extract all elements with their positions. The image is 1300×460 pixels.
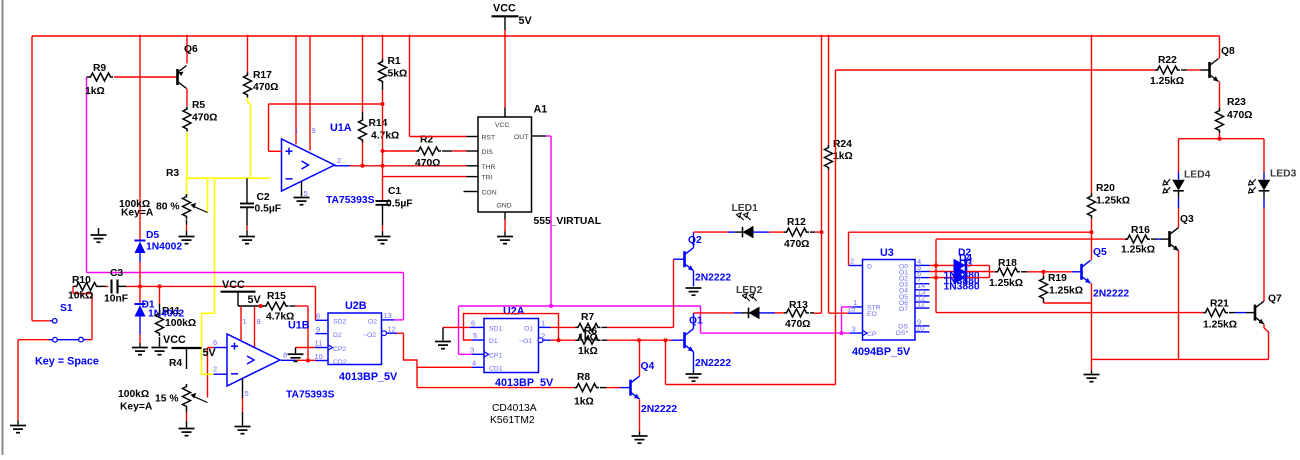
resistor R24 — [825, 145, 833, 170]
svg-text:1: 1 — [295, 126, 299, 135]
wire diode commons — [967, 264, 990, 266]
potentiometer R3 — [186, 178, 188, 194]
wire R7 to Q2 riser — [607, 326, 674, 328]
diode D3 — [954, 265, 967, 279]
resistor R12 — [784, 228, 809, 236]
svg-text:6: 6 — [213, 338, 217, 347]
wire U1B output — [281, 359, 296, 361]
capacitor C3 — [106, 285, 109, 287]
resistor R5 — [183, 107, 191, 132]
svg-text:OS*: OS* — [896, 330, 909, 337]
wire LED2 to R13 — [775, 312, 784, 314]
diode D1 — [139, 286, 141, 304]
resistor R6 — [576, 336, 601, 344]
svg-text:R20: R20 — [1096, 183, 1115, 194]
svg-text:10: 10 — [315, 352, 323, 361]
svg-text:Q1: Q1 — [689, 316, 703, 327]
svg-text:100kΩ: 100kΩ — [118, 389, 149, 400]
wire C1 top — [382, 177, 384, 201]
svg-text:R16: R16 — [1131, 225, 1150, 236]
wire R19 bottom to emitter — [1044, 302, 1092, 304]
svg-text:R9: R9 — [93, 63, 106, 74]
svg-text:LED3: LED3 — [1270, 169, 1297, 180]
svg-text:4013BP_5V: 4013BP_5V — [339, 371, 398, 383]
wire LED3 top — [1263, 139, 1265, 173]
wire notO2 riser to R8 — [416, 367, 418, 387]
wire U1B pin5 ground — [242, 379, 244, 399]
svg-text:D2: D2 — [333, 332, 342, 339]
svg-text:Q7: Q7 — [1268, 294, 1282, 305]
wire Q3 emitter to bus — [1178, 251, 1180, 360]
svg-text:9: 9 — [316, 325, 320, 334]
svg-text:~O1: ~O1 — [519, 338, 532, 345]
transistor Q1 — [672, 329, 694, 352]
svg-text:4: 4 — [472, 359, 476, 368]
svg-text:Q3: Q3 — [1180, 214, 1194, 225]
ground U1B — [235, 427, 251, 434]
svg-text:VCC: VCC — [163, 334, 186, 346]
svg-text:1.25kΩ: 1.25kΩ — [1096, 196, 1130, 207]
wire Q4 emitter ground — [639, 399, 641, 431]
wire U1A power pins — [295, 36, 297, 145]
ground U1A — [294, 198, 310, 205]
svg-text:CD4013A: CD4013A — [492, 403, 537, 414]
svg-text:Key = Space: Key = Space — [35, 356, 99, 368]
transistor Q5 — [1072, 260, 1091, 283]
LED3 — [1263, 173, 1265, 180]
svg-text:R21: R21 — [1210, 299, 1229, 310]
ground S1 — [10, 426, 26, 433]
svg-text:15 %: 15 % — [155, 394, 178, 405]
svg-text:D: D — [867, 263, 872, 270]
U2A left pin stubs — [470, 326, 484, 328]
resistor R11 — [159, 286, 161, 304]
wire U2B notO2 net — [397, 332, 404, 334]
svg-text:2: 2 — [850, 257, 854, 266]
svg-text:O2: O2 — [368, 319, 377, 326]
wire SD1 to ground — [443, 326, 470, 328]
svg-text:TRI: TRI — [482, 175, 493, 182]
resistor R13 — [784, 309, 809, 317]
transistor Q2 — [674, 248, 694, 271]
svg-text:TA75393S: TA75393S — [326, 195, 375, 206]
svg-text:5V: 5V — [248, 294, 262, 306]
wire Q4 collector riser — [639, 340, 641, 376]
resistor R22 — [1155, 66, 1180, 74]
wire Q1 collector riser — [693, 313, 695, 329]
svg-text:470Ω: 470Ω — [784, 239, 809, 250]
wire U2A D1 loop from notO1 — [464, 314, 559, 341]
wire U1A plus line to R1 node — [269, 103, 383, 105]
svg-text:O1: O1 — [524, 325, 533, 332]
wire R3 bottom to ground — [186, 220, 188, 225]
IC U2A box — [484, 319, 539, 373]
svg-text:R19: R19 — [1048, 273, 1067, 284]
wire U1A output — [335, 165, 351, 167]
svg-text:1.25kΩ: 1.25kΩ — [1121, 245, 1155, 256]
svg-text:5: 5 — [245, 389, 249, 398]
svg-text:EO: EO — [867, 311, 877, 318]
svg-text:R18: R18 — [998, 258, 1017, 269]
svg-text:CP: CP — [867, 331, 877, 338]
svg-text:0.5µF: 0.5µF — [255, 204, 282, 215]
ground Q1 — [686, 374, 702, 381]
wire bottom bus — [1092, 358, 1269, 360]
wire R1 bottom node — [382, 84, 384, 90]
svg-text:470Ω: 470Ω — [785, 319, 810, 330]
wire LED3 bottom — [1263, 205, 1265, 209]
wire yellow bus to U1A minus — [187, 177, 271, 179]
wire U1A pin5 ground — [301, 182, 303, 197]
power VCC 5V top — [492, 15, 519, 17]
svg-text:15: 15 — [847, 304, 855, 313]
svg-text:6: 6 — [471, 319, 475, 328]
svg-text:12: 12 — [388, 324, 396, 333]
svg-text:2: 2 — [213, 365, 217, 374]
svg-text:5V: 5V — [203, 347, 217, 359]
svg-text:100kΩ: 100kΩ — [165, 318, 196, 329]
resistor R9 — [88, 73, 113, 81]
svg-text:5: 5 — [473, 331, 477, 340]
svg-text:C2: C2 — [257, 192, 270, 203]
LED4 — [1178, 173, 1180, 180]
wire U1B plus riser to R4 wiper — [207, 348, 209, 398]
svg-text:OUT: OUT — [514, 134, 528, 141]
wire Q2 collector riser — [693, 232, 695, 248]
svg-text:3: 3 — [852, 324, 856, 333]
svg-text:CP1: CP1 — [489, 352, 502, 359]
svg-text:Q2: Q2 — [688, 235, 702, 246]
wire Q7 emitter to bus corner — [1263, 324, 1265, 328]
resistor R7 — [576, 323, 601, 331]
svg-text:C1: C1 — [388, 186, 401, 197]
transistor Q7 — [1246, 301, 1264, 324]
svg-text:R10: R10 — [72, 275, 91, 286]
svg-text:SD1: SD1 — [489, 325, 502, 332]
svg-text:Q6: Q6 — [184, 44, 198, 55]
svg-text:1kΩ: 1kΩ — [578, 333, 598, 344]
resistor R1 — [379, 59, 387, 84]
svg-text:S1: S1 — [60, 303, 73, 314]
resistor R21 — [1203, 309, 1228, 317]
U3 right pin stubs — [915, 264, 930, 266]
wire R6 to Q1 base — [607, 339, 672, 341]
wire R1 top from bus — [382, 36, 384, 60]
svg-text:1.25kΩ: 1.25kΩ — [989, 278, 1023, 289]
switch S1 — [52, 319, 83, 343]
ground R4 — [179, 429, 195, 436]
svg-text:2N2222: 2N2222 — [695, 358, 731, 369]
resistor R17 — [244, 73, 252, 98]
wire R24 to EO — [828, 170, 830, 313]
resistor R10 — [73, 285, 75, 287]
svg-text:VCC: VCC — [222, 279, 245, 291]
svg-text:1kΩ: 1kΩ — [578, 346, 598, 357]
svg-text:C3: C3 — [110, 268, 123, 279]
svg-text:Q8: Q8 — [1221, 46, 1235, 57]
svg-text:8: 8 — [283, 351, 287, 360]
wire R4 bottom ground — [186, 409, 188, 412]
resistor R8 — [417, 387, 574, 389]
transistor Q6 — [178, 66, 187, 89]
ground stray left — [98, 228, 100, 235]
svg-text:1: 1 — [541, 319, 545, 328]
svg-text:9: 9 — [312, 126, 316, 135]
svg-text:R5: R5 — [192, 100, 205, 111]
svg-text:K561TM2: K561TM2 — [490, 415, 535, 426]
ground Q2 — [686, 288, 702, 295]
U2B left pin stubs — [316, 319, 329, 321]
wire R5 to yellow bus — [186, 133, 188, 179]
svg-text:TA75393S: TA75393S — [286, 390, 335, 401]
svg-text:9: 9 — [257, 317, 261, 326]
wire LED4 top — [1178, 139, 1180, 173]
diode D4 — [954, 271, 967, 285]
wire S1 ground side — [17, 340, 19, 421]
wire S1 to R10 riser — [83, 339, 86, 341]
resistor R14 — [359, 118, 367, 143]
svg-text:R3: R3 — [166, 168, 179, 179]
wire R14 bottom — [362, 143, 364, 166]
wire U2A O1 to R7 — [551, 326, 576, 328]
svg-text:RST: RST — [482, 135, 496, 142]
svg-text:VCC: VCC — [493, 3, 516, 15]
svg-text:555_VIRTUAL: 555_VIRTUAL — [534, 216, 602, 227]
U3 left pin stubs — [849, 265, 863, 267]
ground C2 — [239, 237, 255, 244]
svg-text:0.5µF: 0.5µF — [386, 199, 413, 210]
wire RST riser — [409, 36, 411, 137]
resistor R18 — [990, 271, 997, 273]
wire CP2 to ground — [296, 347, 316, 349]
ground SD1 — [435, 342, 451, 349]
svg-text:CD2: CD2 — [333, 359, 347, 366]
wire D-column top — [139, 36, 141, 241]
transistor Q4 — [621, 376, 640, 399]
node VCC bus junctions — [139, 35, 141, 37]
wire Q5 emitter down — [1091, 283, 1093, 359]
ground Q4 — [632, 436, 648, 443]
wire O0 bottom line to R21 — [936, 312, 1204, 314]
svg-text:DIS: DIS — [482, 149, 494, 156]
svg-text:Key=A: Key=A — [120, 402, 153, 413]
IC U2B box — [328, 313, 382, 365]
svg-text:1N4002: 1N4002 — [146, 242, 182, 253]
wire O0 O1 O2 to diodes — [930, 264, 954, 266]
svg-text:1kΩ: 1kΩ — [574, 397, 594, 408]
transistor Q8 — [1201, 59, 1219, 82]
svg-text:80 %: 80 % — [156, 202, 179, 213]
resistor R19 — [1043, 272, 1045, 277]
wire R17 top — [247, 36, 249, 74]
svg-text:U2B: U2B — [345, 300, 367, 312]
wire pot R3 wiper riser — [207, 178, 209, 212]
svg-text:11: 11 — [917, 300, 925, 309]
svg-text:1: 1 — [243, 317, 247, 326]
svg-text:R23: R23 — [1227, 97, 1246, 108]
svg-text:R1: R1 — [388, 56, 401, 67]
ground R3 — [179, 237, 195, 244]
wire O0 top line to R16 — [935, 238, 937, 240]
svg-text:Key=A: Key=A — [121, 208, 154, 219]
IC A1 555 box — [478, 117, 532, 212]
svg-text:R13: R13 — [789, 300, 808, 311]
A1 pin stubs — [464, 108, 547, 220]
wire R12 to riser — [815, 231, 822, 233]
svg-text:1.25kΩ: 1.25kΩ — [1150, 76, 1184, 87]
svg-text:Q5: Q5 — [1093, 247, 1107, 258]
resistor R2 — [383, 150, 417, 152]
svg-text:R17: R17 — [253, 70, 272, 81]
svg-text:10nF: 10nF — [104, 294, 128, 305]
wire U2A notO1 to R6 — [551, 339, 576, 341]
svg-text:U3: U3 — [880, 247, 894, 259]
svg-text:D3: D3 — [959, 259, 972, 270]
svg-text:R22: R22 — [1158, 55, 1177, 66]
svg-text:R7: R7 — [581, 312, 594, 323]
svg-text:O7: O7 — [899, 306, 908, 313]
svg-text:LED4: LED4 — [1184, 170, 1211, 181]
svg-text:470Ω: 470Ω — [1227, 110, 1252, 121]
wire Q5 collector R20 column — [1091, 36, 1093, 195]
svg-text:2N2222: 2N2222 — [695, 273, 731, 284]
resistor R16 — [1125, 235, 1150, 243]
wire LED4 bottom — [1178, 205, 1180, 209]
svg-text:CD1: CD1 — [489, 365, 503, 372]
diode D2 — [954, 259, 967, 273]
wire Q7 collector to LED3 — [1263, 208, 1265, 301]
wire SD2 riser — [315, 286, 317, 320]
wire Q1 emitter ground — [693, 352, 695, 371]
transistor Q3 — [1161, 228, 1179, 251]
IC U3 box — [863, 260, 916, 341]
svg-text:11: 11 — [315, 339, 323, 348]
svg-text:LED1: LED1 — [732, 203, 759, 214]
svg-text:8: 8 — [316, 312, 320, 321]
page left edge — [2, 0, 4, 455]
LED1 — [728, 231, 735, 233]
op-amp U1B — [227, 334, 280, 386]
svg-text:R12: R12 — [787, 217, 806, 228]
svg-text:~O2: ~O2 — [363, 332, 376, 339]
wire S1 feed from border — [32, 320, 50, 322]
wire left border — [31, 36, 33, 321]
wire U1B plus input — [208, 347, 214, 349]
svg-text:THR: THR — [482, 164, 496, 171]
svg-text:CP2: CP2 — [333, 346, 346, 353]
svg-text:U2A: U2A — [503, 306, 525, 318]
wire R15 riser to CD2 — [307, 306, 309, 361]
svg-text:Q4: Q4 — [641, 361, 655, 372]
svg-text:GND: GND — [497, 203, 512, 210]
svg-text:R8: R8 — [577, 372, 590, 383]
wire R24 top — [828, 36, 830, 146]
resistor R1w9 wire — [87, 76, 89, 78]
wire LED1 line left — [694, 231, 729, 233]
wire U3 D input — [848, 232, 850, 265]
U2A right pins — [539, 326, 551, 328]
svg-text:1.25kΩ: 1.25kΩ — [1049, 286, 1083, 297]
wire U1A plus input — [269, 150, 282, 152]
svg-text:470Ω: 470Ω — [253, 82, 278, 93]
svg-text:5kΩ: 5kΩ — [388, 69, 408, 80]
ground C1 — [375, 237, 391, 244]
svg-text:CON: CON — [482, 190, 497, 197]
wire Q2 emitter ground — [693, 271, 695, 287]
svg-text:D5: D5 — [146, 230, 159, 241]
wire LED rail — [1179, 138, 1265, 140]
svg-text:U1B: U1B — [288, 320, 310, 332]
potentiometer R4 — [183, 384, 191, 409]
wire 555 OUT magenta net — [546, 135, 551, 137]
svg-text:R14: R14 — [369, 118, 388, 129]
ground D1 — [132, 348, 148, 355]
wire VCC top bus — [32, 35, 1220, 37]
svg-text:5V: 5V — [519, 15, 533, 27]
capacitor C1 — [376, 200, 390, 202]
svg-text:2N2222: 2N2222 — [641, 404, 677, 415]
svg-text:R4: R4 — [169, 358, 182, 369]
wire A1 GND pin — [504, 220, 506, 232]
wire LED2 line left — [694, 312, 735, 314]
wire Q6 collector to R5 — [186, 89, 188, 107]
wire 5V rail to R15 — [238, 305, 264, 307]
wire Q8 emitter to R23 — [1219, 82, 1221, 110]
wire yellow long riser — [214, 178, 216, 313]
wire TRI line — [383, 176, 467, 178]
wire R17 bottom yellow — [248, 98, 251, 179]
svg-text:10: 10 — [916, 323, 924, 332]
diode D5 — [135, 241, 146, 254]
svg-text:LED2: LED2 — [736, 285, 763, 296]
op-amp U1A — [282, 139, 335, 191]
wire Q8 base long riser — [835, 70, 837, 385]
capacitor C2 — [246, 178, 248, 203]
svg-text:VCC: VCC — [495, 122, 509, 129]
wire Q3 collector to LED4 — [1178, 208, 1180, 228]
svg-text:2: 2 — [337, 156, 341, 165]
svg-text:2N2222: 2N2222 — [1093, 289, 1129, 300]
ground CP2 — [288, 354, 304, 361]
LED2 — [734, 312, 741, 314]
svg-text:R15: R15 — [267, 291, 286, 302]
svg-text:D1: D1 — [489, 338, 498, 345]
svg-text:4094BP_5V: 4094BP_5V — [852, 346, 911, 358]
U2B right pins — [382, 319, 395, 321]
resistor R23 — [1216, 108, 1224, 133]
wire A1 VCC pin — [504, 36, 506, 108]
wire U2B O2 magenta net to R9 — [87, 272, 404, 274]
ground A1 — [497, 237, 513, 244]
wire R14 top from bus — [362, 36, 364, 112]
svg-text:2: 2 — [541, 331, 545, 340]
svg-text:U1A: U1A — [330, 122, 352, 134]
wire LED1 to R12 — [769, 231, 784, 233]
wire U1B minus input yellow — [202, 312, 215, 314]
svg-text:1kΩ: 1kΩ — [85, 86, 105, 97]
svg-text:1N3880: 1N3880 — [944, 282, 980, 293]
wire C3 line to SD2 riser — [126, 285, 316, 287]
svg-text:A1: A1 — [534, 104, 548, 116]
svg-text:SD2: SD2 — [333, 319, 346, 326]
svg-text:470Ω: 470Ω — [192, 113, 217, 124]
wire R13 riser to bus — [814, 312, 822, 314]
wire R9 magenta riser from U2B O2 — [86, 77, 88, 273]
wire U1B power pins — [240, 306, 242, 340]
wire O0 vertical — [935, 239, 937, 313]
svg-text:10kΩ: 10kΩ — [68, 291, 93, 302]
svg-text:1.25kΩ: 1.25kΩ — [1203, 320, 1237, 331]
